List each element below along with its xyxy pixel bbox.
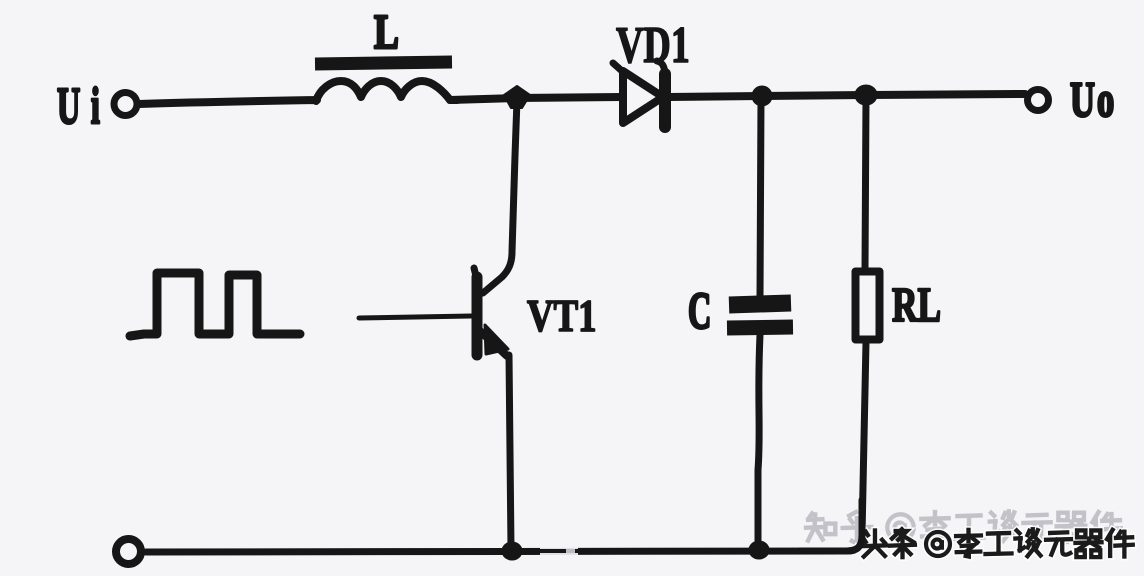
wire capacitor stem bottom (758, 335, 760, 548)
node junction after L (collector tap) (504, 86, 530, 108)
terminal bottom-left circle (116, 539, 141, 564)
terminal Ui circle (114, 93, 137, 116)
svg-text:L: L (374, 5, 399, 59)
wire thinning artifact on bottom wire (540, 545, 578, 550)
svg-text:C: C (688, 282, 711, 340)
node emitter junction on bottom wire (502, 542, 522, 560)
node junction at C branch (752, 86, 772, 106)
terminal Uo circle (1028, 90, 1049, 111)
wire base (359, 316, 471, 318)
wire capacitor stem top (760, 98, 761, 297)
svg-text:RL: RL (892, 279, 941, 333)
diode VD1 cathode bar (659, 74, 671, 127)
wire inductor to diode anode (450, 97, 621, 100)
node junction at RL branch (855, 85, 877, 105)
wire RL stem bottom + bottom wire (146, 342, 866, 552)
resistor RL body (856, 272, 880, 340)
node capacitor junction on bottom wire (749, 541, 769, 559)
wire Ui to inductor (139, 100, 317, 104)
svg-text:Ui: Ui (57, 77, 110, 135)
inductor L coil (316, 81, 457, 101)
watermark black 头条 @李工谈元器件 (859, 529, 1133, 557)
watermark gray 知乎 @李工谈元器件 (806, 511, 1121, 542)
transistor VT1 base bar (472, 277, 483, 355)
transistor VT1 emitter diagonal (480, 331, 507, 356)
capacitor C top plate (729, 303, 791, 305)
square-wave drive signal (130, 273, 300, 336)
svg-text:VD1: VD1 (616, 15, 690, 73)
svg-text:VT1: VT1 (527, 291, 597, 342)
wire emitter vertical (509, 355, 511, 549)
svg-text:Uo: Uo (1070, 73, 1116, 128)
wire RL stem top (865, 98, 866, 269)
wire collector vertical (483, 100, 517, 293)
wire diode to Uo (668, 94, 1025, 97)
wire RL corner redrawn on top (800, 500, 862, 551)
diode VD1 triangle (623, 71, 663, 123)
inductor L core bar (315, 62, 452, 64)
transistor VT1 emitter arrow (485, 325, 508, 354)
capacitor C bottom plate (727, 327, 793, 328)
watermark black halo 头条 @李工谈元器件 (859, 529, 1133, 557)
